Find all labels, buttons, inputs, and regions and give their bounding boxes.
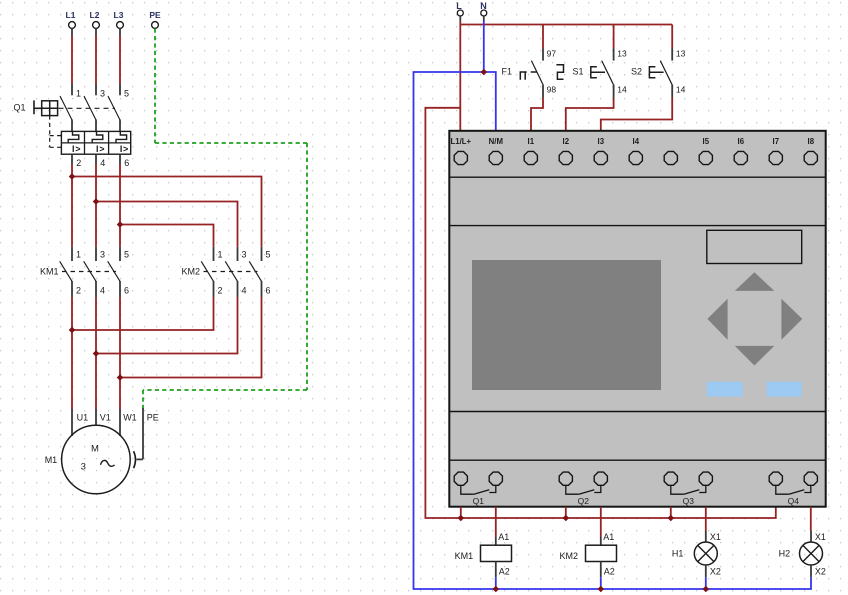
motor PE lead <box>134 408 143 468</box>
svg-text:I6: I6 <box>738 137 745 146</box>
svg-text:I3: I3 <box>598 137 605 146</box>
svg-text:4: 4 <box>242 286 247 296</box>
junction <box>117 374 124 381</box>
svg-text:3: 3 <box>242 250 247 260</box>
svg-text:I>: I> <box>72 144 81 154</box>
svg-text:L1/L+: L1/L+ <box>451 137 472 146</box>
svg-text:U1: U1 <box>77 412 89 422</box>
breaker Q1 pin 6 <box>120 154 129 168</box>
wire N return rail (blue) <box>414 72 812 589</box>
overload contact F1 <box>502 49 564 98</box>
motor M1 <box>62 425 131 494</box>
svg-text:Q4: Q4 <box>788 496 800 506</box>
PLC cursor pad down <box>735 346 775 366</box>
svg-text:6: 6 <box>266 286 271 296</box>
wire KM1 A2 to N (blue) <box>495 577 497 589</box>
svg-text:4: 4 <box>100 158 105 168</box>
svg-text:Q1: Q1 <box>473 496 485 506</box>
PLC input terminal I6 <box>734 137 747 165</box>
svg-text:5: 5 <box>266 250 271 260</box>
terminal L1 <box>66 10 76 36</box>
svg-text:14: 14 <box>676 85 686 95</box>
PLC relay output Q1 <box>454 472 502 506</box>
contactor coil KM1 <box>455 532 512 578</box>
svg-text:X1: X1 <box>815 532 826 542</box>
PLC input terminal I8 <box>804 137 817 165</box>
svg-text:2: 2 <box>218 286 223 296</box>
wire KM1:2 / KM2:2 to motor U1 <box>72 297 214 330</box>
svg-text:KM2: KM2 <box>182 267 201 277</box>
junction N <box>481 69 488 76</box>
breaker Q1 trip linkage (dashed) <box>50 116 62 148</box>
breaker Q1 overload/magnetic trip box <box>61 131 130 154</box>
junction <box>93 350 100 357</box>
wire KM2 A2 to N (blue) <box>600 577 602 589</box>
junction <box>458 515 465 522</box>
svg-text:5: 5 <box>124 89 129 99</box>
PLC cursor pad left <box>707 299 727 340</box>
PLC cursor pad up <box>735 272 775 291</box>
wire PE (green dashed) <box>143 29 307 409</box>
wire <box>71 36 73 85</box>
svg-text:L: L <box>456 1 462 11</box>
wire L to output common <box>425 108 775 518</box>
svg-text:L2: L2 <box>90 10 100 20</box>
wire drop to S1 <box>613 25 615 49</box>
svg-text:KM2: KM2 <box>560 551 579 561</box>
wire L1 phase <box>71 164 73 247</box>
contact pole 3-4 <box>84 247 105 297</box>
wire S1 to I2 <box>566 98 614 131</box>
PLC input terminal I4 <box>629 137 642 165</box>
PLC input terminal I3 <box>594 137 607 165</box>
PLC input terminal unlabeled <box>664 151 677 164</box>
junction <box>668 515 675 522</box>
svg-text:A2: A2 <box>499 567 510 577</box>
terminal L2 <box>90 10 100 36</box>
svg-text:I>: I> <box>120 144 129 154</box>
wire L3 to KM2 pin 1 <box>120 225 214 247</box>
svg-text:13: 13 <box>676 49 686 59</box>
svg-text:A1: A1 <box>498 532 509 542</box>
svg-text:Q1: Q1 <box>14 103 26 113</box>
wire Q2 to KM2 coil <box>600 507 602 537</box>
svg-text:S2: S2 <box>631 66 642 76</box>
wire drop to S2 <box>671 25 673 49</box>
PLC cursor pad right <box>781 299 802 340</box>
KM2 linkage (dashed) <box>204 271 258 273</box>
wire drop to F1 <box>542 25 544 49</box>
junction <box>117 221 124 228</box>
PLC input terminal I5 <box>699 137 712 165</box>
svg-text:1: 1 <box>76 89 81 99</box>
wire N to PLC N/M (blue) <box>484 72 496 131</box>
thermal release element <box>92 131 103 143</box>
svg-text:6: 6 <box>124 158 129 168</box>
svg-text:V1: V1 <box>100 412 111 422</box>
svg-text:I5: I5 <box>703 137 710 146</box>
svg-text:2: 2 <box>76 286 81 296</box>
svg-text:H1: H1 <box>672 549 684 559</box>
terminal N <box>480 1 487 21</box>
junction <box>703 586 710 593</box>
PLC section dividers <box>449 177 825 460</box>
contact pole 1-2 <box>201 247 222 297</box>
breaker Q1 manual operator <box>34 100 58 115</box>
wire KM1:6 / KM2:6 to motor W1 <box>120 297 262 378</box>
wire L top distribution <box>460 24 672 26</box>
breaker Q1 pin 2 <box>72 154 81 168</box>
svg-text:X2: X2 <box>710 567 721 577</box>
PLC input terminal I7 <box>769 137 782 165</box>
svg-text:Q2: Q2 <box>578 496 590 506</box>
svg-text:1: 1 <box>218 250 223 260</box>
wire L2 to KM2 pin 3 <box>96 202 238 247</box>
svg-text:I8: I8 <box>808 137 815 146</box>
svg-text:PE: PE <box>147 412 159 422</box>
svg-text:I1: I1 <box>528 137 535 146</box>
svg-text:4: 4 <box>100 286 105 296</box>
PLC input terminal I2 <box>559 137 572 165</box>
terminal PE <box>149 10 161 28</box>
wire L3 phase <box>119 164 121 247</box>
svg-text:3: 3 <box>81 461 86 472</box>
wire Q1 to KM1 coil <box>495 507 497 537</box>
breaker Q1 pole contact 1 <box>60 84 81 131</box>
svg-text:2: 2 <box>76 158 81 168</box>
wire H1 X2 to N (blue) <box>705 577 707 589</box>
svg-text:A2: A2 <box>604 567 615 577</box>
PLC U1 body <box>449 131 825 507</box>
wire F1 to I1 <box>531 98 543 131</box>
PLC label window <box>707 230 802 263</box>
contactor coil KM2 <box>560 532 617 578</box>
wire Q3 common stub <box>670 507 672 518</box>
svg-text:PE: PE <box>149 10 161 20</box>
svg-text:1: 1 <box>76 250 81 260</box>
svg-text:I7: I7 <box>773 137 780 146</box>
junction <box>563 515 570 522</box>
svg-text:5: 5 <box>124 250 129 260</box>
svg-text:3: 3 <box>100 89 105 99</box>
svg-text:I2: I2 <box>563 137 570 146</box>
PLC ESC button <box>707 382 743 397</box>
junction <box>93 198 100 205</box>
pushbutton S1 <box>573 49 628 98</box>
svg-text:Q3: Q3 <box>683 496 695 506</box>
svg-text:3: 3 <box>100 250 105 260</box>
svg-text:W1: W1 <box>123 412 137 422</box>
wire <box>119 36 121 85</box>
junction <box>493 586 500 593</box>
junction <box>69 173 76 180</box>
indicator lamp H1 <box>672 531 721 578</box>
KM1 linkage (dashed) <box>62 271 116 273</box>
wire Q1 common stub <box>460 507 462 518</box>
breaker Q1 pin 4 <box>96 154 105 168</box>
indicator lamp H2 <box>779 531 826 578</box>
svg-text:M: M <box>91 444 99 455</box>
thermal release element <box>116 131 127 143</box>
terminal L <box>456 1 463 21</box>
svg-text:M1: M1 <box>45 455 58 465</box>
PLC relay output Q2 <box>559 472 607 506</box>
svg-text:A1: A1 <box>603 532 614 542</box>
wire Q4 to lamp H2 <box>810 507 812 531</box>
wire L1 to KM2 pin 5 <box>72 177 262 247</box>
PLC input terminal L1/L+ <box>451 137 472 165</box>
thermal release element <box>68 131 79 143</box>
svg-text:I4: I4 <box>633 137 640 146</box>
svg-text:X2: X2 <box>815 567 826 577</box>
wire KM1:4 / KM2:4 to motor V1 <box>96 297 238 354</box>
contact pole 3-4 <box>225 247 246 297</box>
breaker Q1 linkage (dashed) <box>59 107 116 109</box>
PLC relay output Q3 <box>664 472 712 506</box>
junction <box>598 586 605 593</box>
svg-text:KM1: KM1 <box>455 551 474 561</box>
wire <box>95 36 97 85</box>
PLC relay output Q4 <box>769 472 817 506</box>
contact pole 5-6 <box>249 247 270 297</box>
svg-text:KM1: KM1 <box>40 267 59 277</box>
svg-text:X1: X1 <box>710 532 721 542</box>
svg-text:N/M: N/M <box>489 137 503 146</box>
wire S2 to I3 <box>601 98 672 131</box>
contact pole 5-6 <box>108 247 129 297</box>
PLC input terminal I1 <box>524 137 537 165</box>
wire Q2 common stub <box>565 507 567 518</box>
breaker Q1 pole contact 3 <box>84 84 105 131</box>
PLC input terminal N/M <box>489 137 503 165</box>
pushbutton S2 <box>631 49 686 98</box>
svg-text:14: 14 <box>617 85 627 95</box>
svg-text:F1: F1 <box>502 66 513 76</box>
svg-text:L1: L1 <box>66 10 76 20</box>
breaker Q1 pole contact 5 <box>108 84 129 131</box>
svg-text:H2: H2 <box>779 549 791 559</box>
PLC OK button <box>767 382 802 397</box>
contact pole 1-2 <box>60 247 81 297</box>
svg-text:97: 97 <box>547 49 557 59</box>
motor M1 terminals U1 V1 W1 <box>72 409 159 436</box>
svg-text:13: 13 <box>617 49 627 59</box>
wire N rail (blue) <box>483 21 485 72</box>
svg-text:6: 6 <box>124 286 129 296</box>
svg-text:S1: S1 <box>573 66 584 76</box>
junction <box>69 327 76 334</box>
terminal L3 <box>114 10 124 36</box>
PLC LCD display <box>472 260 661 390</box>
wire Q3 to lamp H1 <box>705 507 707 531</box>
svg-text:I>: I> <box>96 144 105 154</box>
wire L2 phase <box>95 164 97 247</box>
svg-text:L3: L3 <box>114 10 124 20</box>
wire L rail <box>459 21 461 131</box>
svg-text:98: 98 <box>547 85 557 95</box>
